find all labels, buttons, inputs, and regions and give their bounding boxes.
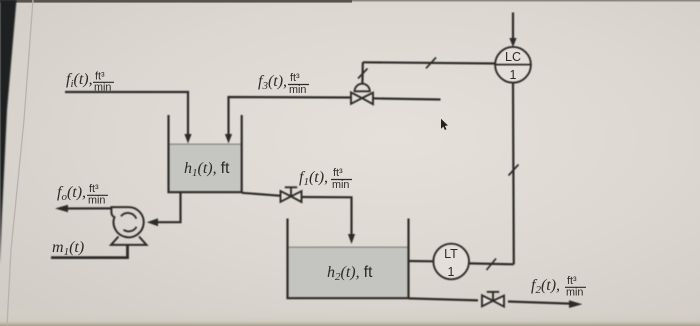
svg-text:ft³: ft³ xyxy=(89,183,99,195)
wire: tank2 outlet pipe f2 xyxy=(409,298,571,303)
label f1(t), ft3/min xyxy=(299,167,349,191)
pump P1 impeller swirl xyxy=(121,213,137,231)
tank T2 walls xyxy=(288,219,409,299)
svg-text:min: min xyxy=(566,287,583,299)
control valve CV1 body xyxy=(351,92,373,104)
level transmitter LT1 circle xyxy=(433,244,469,280)
control valve CV1 actuator dome xyxy=(355,84,370,92)
svg-text:min: min xyxy=(332,179,349,191)
svg-text:ft³: ft³ xyxy=(567,275,577,287)
fraction bar f2 xyxy=(565,286,586,288)
fraction bar fi xyxy=(93,81,114,83)
svg-text:h1(t), ft: h1(t), ft xyxy=(184,160,230,179)
bottom page-edge shading xyxy=(0,308,700,326)
arrow (setpoint) into LC top xyxy=(512,13,514,39)
svg-text:min: min xyxy=(94,82,111,94)
label f2(t), ft3/min xyxy=(531,275,583,299)
pump P1 base xyxy=(111,237,147,245)
slash tick on stem xyxy=(358,69,368,79)
label f3(t), ft3/min xyxy=(258,72,306,96)
control valve CV1 stem signal xyxy=(361,62,364,84)
slash tick on LC line xyxy=(426,58,436,69)
hand valve V2 stem xyxy=(487,292,499,301)
label fi(t), ft3/min xyxy=(66,71,111,94)
top dark edge strip xyxy=(0,0,700,2)
signal line: valve to LC xyxy=(363,62,531,64)
hand valve V1 body xyxy=(281,191,302,202)
arrow fo outlet xyxy=(55,205,68,213)
tank T1 liquid surface line xyxy=(170,143,241,145)
pump P1 casing xyxy=(111,207,143,237)
svg-text:min: min xyxy=(289,84,306,96)
svg-text:1: 1 xyxy=(448,265,455,279)
fraction bar fo xyxy=(87,194,108,196)
svg-text:f2(t),: f2(t), xyxy=(531,277,560,296)
tank T1 liquid fill xyxy=(170,144,241,192)
label fo(t), ft3/min xyxy=(57,183,105,207)
svg-text:ft³: ft³ xyxy=(333,167,343,179)
tank T1 walls xyxy=(169,115,242,192)
tank T2 liquid fill xyxy=(289,247,408,298)
fraction bar f1 xyxy=(331,179,352,181)
LT1 tag text xyxy=(444,247,458,279)
svg-text:LT: LT xyxy=(444,247,458,261)
svg-text:f3(t),: f3(t), xyxy=(258,73,287,92)
signal line: LC down to LT junction xyxy=(512,83,515,265)
arrow into tank 2 xyxy=(348,234,355,244)
signal line: LT to junction xyxy=(469,262,514,265)
slash tick on LT line xyxy=(487,259,497,271)
slash tick on LC-LT line xyxy=(509,165,519,176)
wire: m1 signal to pump xyxy=(51,245,128,258)
svg-text:min: min xyxy=(88,195,105,207)
wire: f3 inlet pipe xyxy=(229,97,441,135)
svg-text:f1(t),: f1(t), xyxy=(299,169,328,188)
hand valve V1 stem xyxy=(285,187,297,196)
level controller LC1 circle xyxy=(495,47,531,83)
LT1 tap line to tank 2 xyxy=(409,260,434,262)
wire: tank1 outlet to pump suction xyxy=(158,192,181,222)
mouse cursor xyxy=(441,119,448,130)
svg-text:1: 1 xyxy=(510,68,517,82)
LC1 tag text xyxy=(505,50,521,82)
page edge highlight line xyxy=(7,0,33,326)
tank T2 liquid surface line xyxy=(289,246,408,248)
wire: pump discharge fo xyxy=(67,207,112,209)
svg-text:LC: LC xyxy=(505,50,521,64)
fraction bar f3 xyxy=(288,84,309,86)
svg-text:h2(t), ft: h2(t), ft xyxy=(327,264,373,283)
arrow into tank 1 from f3 xyxy=(225,134,232,144)
wire: tank1 to valve V1 to tank2 xyxy=(242,193,352,235)
LC1 divider line xyxy=(495,64,531,66)
svg-text:fo(t),: fo(t), xyxy=(57,184,86,203)
svg-text:m1(t): m1(t) xyxy=(52,239,84,258)
arrow f2 outlet xyxy=(569,300,583,308)
hand valve V2 body xyxy=(482,295,504,306)
wire: fi inlet pipe xyxy=(65,92,188,135)
arrow into pump xyxy=(147,218,158,226)
svg-text:ft³: ft³ xyxy=(290,72,300,84)
svg-text:fi(t),: fi(t), xyxy=(66,71,93,90)
arrow into tank 1 from fi xyxy=(184,134,191,144)
left black bar (book edge) xyxy=(0,0,17,265)
